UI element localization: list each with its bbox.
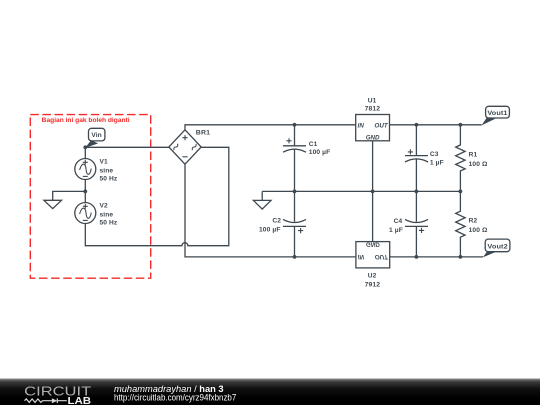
svg-text:100 µF: 100 µF [259, 227, 281, 234]
footer bar [0, 379, 540, 405]
voltage source V2 sine 50 Hz [75, 202, 118, 226]
wire U1 GND to ground rail [372, 141, 374, 192]
svg-text:Bagian ini gak boleh diganti: Bagian ini gak boleh diganti [42, 117, 130, 124]
svg-text:GND: GND [366, 241, 380, 248]
wire center ground stub [261, 191, 263, 200]
svg-text:C1: C1 [309, 141, 318, 148]
svg-text:1 µF: 1 µF [389, 227, 403, 234]
svg-text:http://circuitlab.com/cyrz94fx: http://circuitlab.com/cyrz94fxbnzb7 [114, 393, 236, 403]
wire mid node to V2 plus [84, 191, 86, 202]
svg-text:U2: U2 [368, 273, 377, 280]
junction dot C4 bottom [415, 255, 419, 259]
junction dot C1-C2 ground rail [293, 190, 297, 194]
svg-text:100 Ω: 100 Ω [469, 227, 488, 234]
wire mid node to left ground [53, 191, 86, 200]
svg-text:V2: V2 [100, 202, 108, 209]
capacitor C4 1 uF [389, 191, 428, 257]
svg-text:BR1: BR1 [196, 130, 211, 137]
svg-text:sine: sine [100, 212, 114, 219]
ground rail [262, 190, 460, 192]
svg-text:7812: 7812 [365, 106, 381, 113]
wire Vin node to BR1 left AC terminal [85, 146, 169, 148]
svg-text:OUT: OUT [375, 122, 389, 129]
node Vout2 flag [483, 239, 510, 257]
wire U2 GND to ground rail [372, 191, 374, 241]
junction dot V1-V2 midpoint [83, 190, 87, 194]
svg-text:R2: R2 [469, 218, 478, 225]
svg-text:U1: U1 [368, 98, 377, 105]
wire Vin node down to V1 plus [84, 147, 86, 158]
bridge rectifier BR1 [169, 130, 211, 165]
svg-text:Vout2: Vout2 [487, 243, 508, 250]
wire BR1 minus output to U2 IN [185, 164, 356, 257]
svg-text:Vin: Vin [91, 132, 101, 139]
svg-text:LAB: LAB [68, 395, 92, 405]
svg-text:sine: sine [100, 168, 114, 175]
svg-text:50 Hz: 50 Hz [100, 176, 118, 183]
junction dot C3 top [415, 123, 419, 127]
svg-text:1 µF: 1 µF [430, 159, 444, 166]
junction dot R2 bottom [459, 255, 463, 259]
junction dot C3-C4 ground rail [415, 190, 419, 194]
capacitor C1 100 uF [283, 125, 330, 192]
svg-text:OUT: OUT [375, 253, 389, 260]
junction dot C2 bottom [293, 255, 297, 259]
capacitor C2 100 uF [259, 191, 306, 257]
node Vin flag [85, 128, 105, 148]
svg-text:100 µF: 100 µF [309, 149, 331, 156]
wire BR1 plus output to U1 IN [185, 125, 356, 130]
wire V2 minus to BR1 right AC terminal (with hop) [85, 147, 229, 245]
svg-text:IN: IN [358, 253, 365, 260]
svg-text:Vout1: Vout1 [487, 110, 507, 117]
capacitor C3 1 uF [405, 125, 444, 192]
junction dot R1-R2 ground rail [459, 190, 463, 194]
CircuitLab logo [24, 384, 91, 405]
junction dot U1-U2 GND [371, 190, 375, 194]
resistor R2 100 Ohm [456, 191, 488, 257]
junction dot R1 top [459, 123, 463, 127]
wire V1 minus to mid node [84, 180, 86, 192]
svg-text:C3: C3 [430, 151, 439, 158]
wire U1 OUT to Vout1 [390, 124, 482, 126]
voltage regulator U1 7812 [356, 98, 390, 142]
voltage regulator U2 7912 (flipped) [356, 241, 390, 289]
junction dot Vin node [83, 145, 87, 149]
svg-text:V1: V1 [100, 158, 108, 165]
svg-text:50 Hz: 50 Hz [100, 220, 118, 227]
resistor R1 100 Ohm [456, 125, 488, 192]
svg-text:7912: 7912 [365, 281, 381, 288]
wire U2 OUT to Vout2 [389, 256, 483, 258]
svg-text:C2: C2 [272, 218, 281, 225]
svg-text:C4: C4 [394, 218, 403, 225]
node Vout1 flag [482, 106, 510, 125]
voltage source V1 sine 50 Hz [75, 158, 118, 182]
svg-text:GND: GND [366, 135, 380, 142]
junction dot C1 top [293, 123, 297, 127]
svg-text:100 Ω: 100 Ω [469, 161, 488, 168]
svg-text:R1: R1 [469, 152, 478, 159]
annotation red box "Bagian ini gak boleh diganti" [30, 115, 150, 279]
svg-text:IN: IN [358, 122, 365, 129]
ground center [253, 200, 271, 209]
ground left [44, 200, 62, 208]
